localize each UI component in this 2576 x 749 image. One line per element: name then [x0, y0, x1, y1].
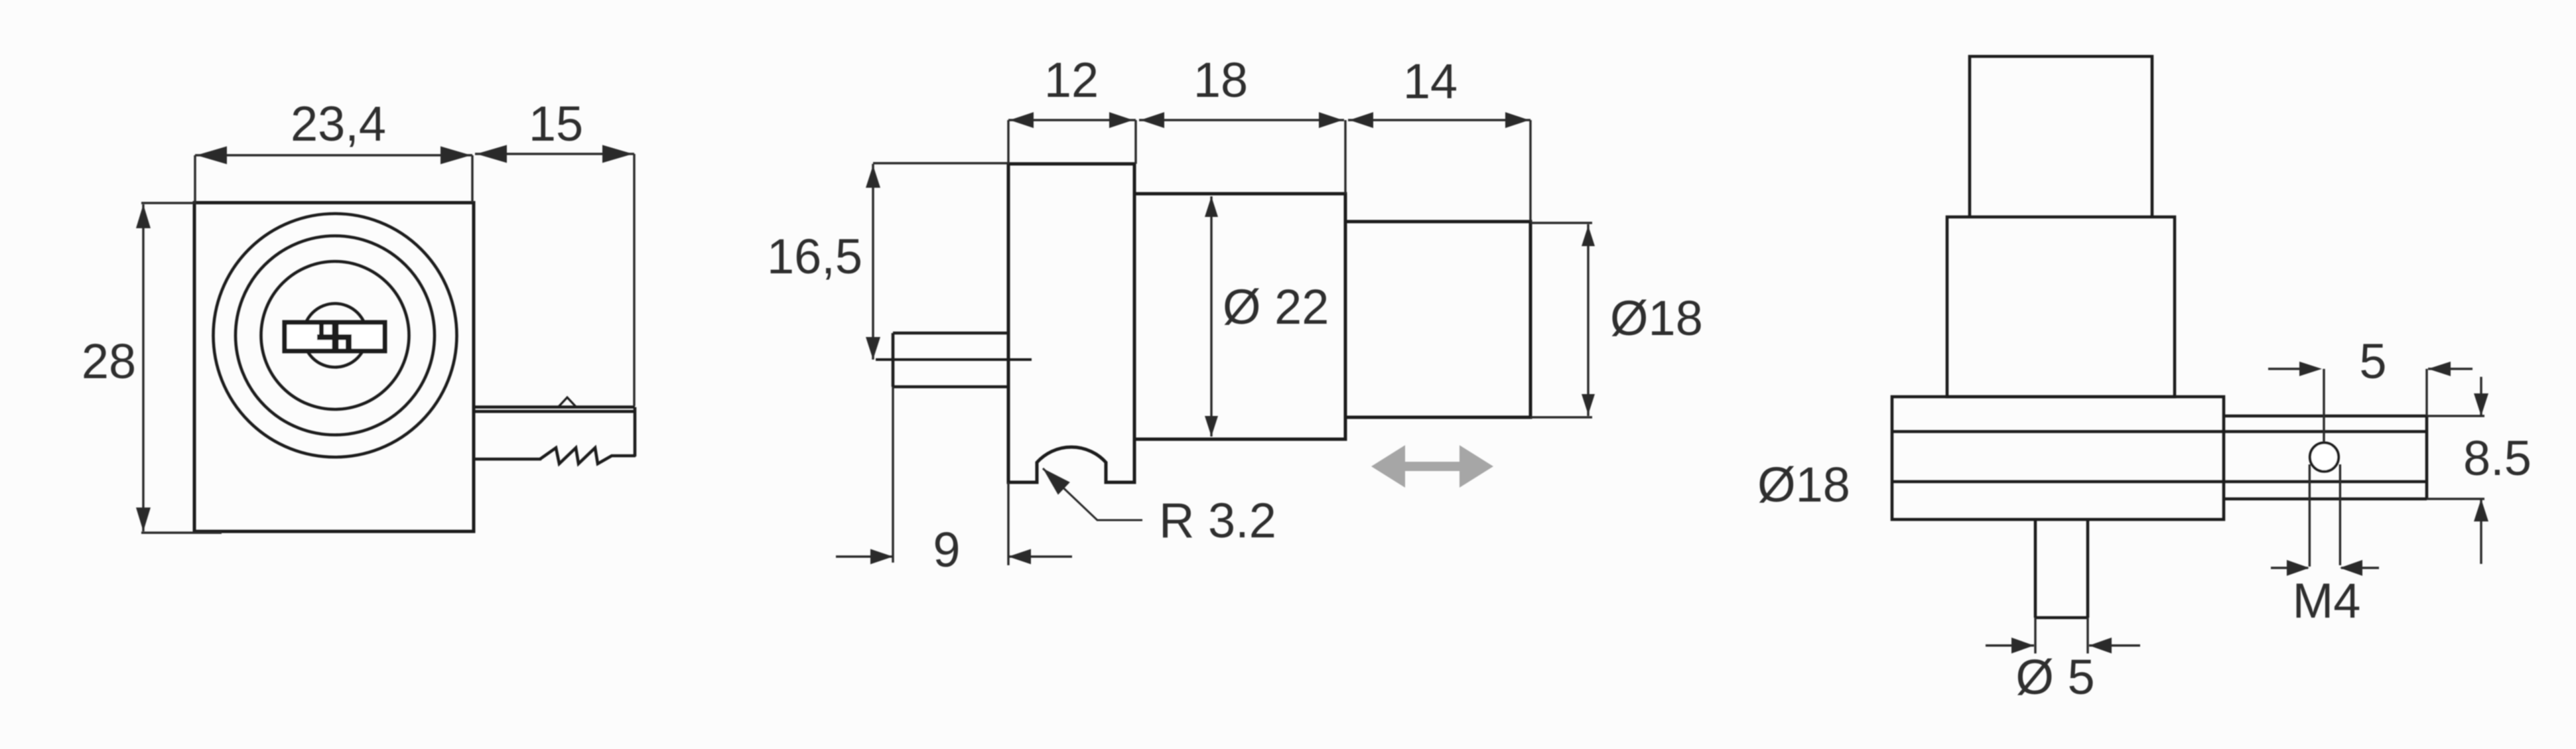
middle view: terminal tab middle line [876, 358, 1032, 361]
right view: cylinder housing block [1947, 217, 2175, 397]
dim 18 extension line [1344, 120, 1346, 194]
left view: middle bezel circle [236, 236, 435, 435]
middle view: terminal tab bottom edge [893, 385, 1008, 389]
left view: latch bolt right edge [634, 407, 637, 456]
dim diameter-18 top arrowhead [1582, 226, 1595, 246]
svg-text:23,4: 23,4 [291, 96, 386, 151]
middle view: terminal tab top edge [893, 332, 1008, 335]
dim 15 line [475, 153, 634, 155]
dim 16,5 bottom arrowhead [866, 337, 880, 360]
dim diameter-5 right extension [2086, 618, 2088, 653]
svg-text:9: 9 [933, 522, 960, 577]
dim diameter-18 top extension line [1530, 222, 1592, 224]
dim 14 left arrowhead [1349, 112, 1373, 128]
dim 12 left arrowhead [1010, 112, 1034, 128]
leader arrowhead R 3.2 [1043, 468, 1070, 495]
dim 28 bottom arrowhead [136, 508, 151, 531]
dim 23,4 line [195, 154, 472, 156]
dim 14 line [1348, 119, 1530, 121]
svg-text:Ø18: Ø18 [1757, 457, 1850, 512]
dim 5 right arrowhead [2428, 362, 2451, 376]
dim diameter-22 bottom arrowhead [1205, 416, 1218, 437]
dim 14 right arrowhead [1505, 112, 1529, 128]
dim 9 left extension line [892, 387, 894, 563]
dim 9 left arrowhead [870, 549, 893, 565]
dim 9 right arrowhead [1008, 549, 1031, 565]
right view: flange block [1892, 397, 2224, 519]
dim 5 bar end extension line [2425, 369, 2427, 416]
dim 8.5 bottom arrowhead [2474, 499, 2488, 521]
svg-text:Ø 5: Ø 5 [2015, 649, 2094, 705]
dim 12 right extension line [1134, 120, 1136, 164]
dim 8.5 top arrowhead [2474, 393, 2488, 416]
svg-text:Ø18: Ø18 [1610, 291, 1703, 346]
svg-text:8.5: 8.5 [2463, 431, 2532, 486]
dim diameter-5 left extension [2034, 618, 2036, 653]
dim 23,4 right extension line [471, 155, 473, 202]
dim 18 line [1139, 119, 1344, 121]
right view: flange inner line upper [1892, 430, 2427, 433]
dim diameter-18 bottom arrowhead [1582, 394, 1595, 415]
middle view: terminal tab left edge [892, 333, 895, 387]
dim 14 extension line [1529, 120, 1531, 222]
dim 16,5 top extension line [873, 162, 1008, 164]
dim diameter-22 line [1210, 196, 1212, 437]
dim M4 left arrow line [2271, 567, 2308, 569]
gray double-headed motion arrow [1371, 445, 1493, 488]
left view: cylinder plug circle [303, 304, 367, 368]
dim diameter-18 bottom extension line [1530, 416, 1592, 418]
dim diameter-5 left arrowhead [2011, 638, 2034, 653]
dim 15 left arrowhead [476, 145, 507, 163]
svg-text:12: 12 [1044, 52, 1099, 107]
right view: M4 screw hole circle [2310, 443, 2339, 471]
dim 18 left arrowhead [1140, 112, 1164, 128]
left view: inner bezel circle [261, 261, 409, 409]
dim M4 right arrowhead [2340, 560, 2362, 576]
dim 9 right arrow line [1008, 555, 1072, 557]
middle view: diameter-22 cylinder [1134, 194, 1345, 439]
dim 23,4 right arrowhead [441, 147, 471, 165]
dim 9 left arrow line [836, 555, 893, 557]
dim 28 top extension line [141, 202, 196, 204]
right view: flange inner line lower [1892, 480, 2427, 484]
dim 23,4 left arrowhead [196, 147, 227, 165]
left view: outer bezel circle [214, 214, 457, 457]
right view: latch bar top edge [2224, 415, 2427, 418]
svg-text:28: 28 [82, 334, 136, 389]
left view: surface finish marker on latch [558, 397, 576, 407]
dim 12 line [1008, 119, 1136, 121]
right view: M4 hole right edge line [2339, 464, 2341, 565]
right view: key head block [1970, 56, 2152, 217]
right view: M4 hole left edge line [2309, 464, 2311, 567]
leader line R 3.2 [1043, 468, 1142, 520]
right view: stem bottom edge [2035, 616, 2088, 620]
dim M4 right arrow line [2341, 567, 2379, 569]
dim 5 hole center extension line [2323, 369, 2325, 443]
dim 15 extension line [633, 154, 635, 406]
dim 8.5 bottom extension line [2427, 498, 2484, 500]
right view: latch bar right edge [2425, 416, 2429, 499]
dim 16,5 line [872, 164, 874, 360]
left view: latch bolt bottom edge left part [474, 458, 541, 461]
dim M4 left arrowhead [2287, 560, 2309, 576]
right view: stem right edge [2086, 519, 2090, 618]
dim diameter-5 left arrow line [1986, 644, 2034, 646]
dim 8.5 top extension line [2427, 415, 2484, 417]
svg-text:5: 5 [2359, 334, 2386, 389]
left view: latch bolt top edge [474, 405, 635, 409]
dim diameter-5 right arrowhead [2089, 638, 2112, 653]
svg-text:R 3.2: R 3.2 [1159, 493, 1276, 548]
svg-text:18: 18 [1193, 52, 1248, 107]
dim 18 right arrowhead [1319, 112, 1343, 128]
left view: keyhole slot outline [285, 322, 385, 351]
dim 12 right arrowhead [1109, 112, 1133, 128]
dim 16,5 top arrowhead [866, 165, 880, 188]
dim diameter-5 right arrow line [2089, 644, 2140, 646]
svg-text:14: 14 [1403, 54, 1457, 109]
right view: latch bar bottom edge [2224, 498, 2427, 501]
svg-text:M4: M4 [2293, 573, 2361, 628]
svg-text:16,5: 16,5 [767, 229, 862, 284]
left view: lock body square outline [194, 203, 474, 532]
dim 28 top arrowhead [136, 204, 151, 228]
dim 9 right extension line [1007, 482, 1009, 565]
left view: keyhole ward pattern [317, 323, 352, 350]
dim 8.5 bottom arrow line [2480, 499, 2482, 564]
dim 15 right arrowhead [602, 145, 633, 163]
dim 5 left arrow line [2268, 368, 2317, 370]
dim 23,4 left extension line [194, 155, 196, 202]
svg-text:15: 15 [529, 96, 583, 151]
dim 5 left arrowhead [2299, 362, 2322, 376]
middle view: mounting flange outline with notch [1008, 164, 1134, 482]
dim 8.5 top arrow line [2480, 377, 2482, 416]
middle view: diameter-18 cylinder [1345, 222, 1530, 417]
svg-text:Ø 22: Ø 22 [1223, 279, 1329, 334]
dim diameter-22 top arrowhead [1205, 196, 1218, 217]
left view: latch bolt serration zigzag [540, 448, 636, 464]
dim 5 right arrow line [2428, 368, 2473, 370]
right view: stem left edge [2034, 519, 2037, 618]
dim 28 bottom extension line [141, 531, 222, 533]
left view: latch bolt second edge [474, 410, 635, 413]
dim 12 left extension line [1007, 120, 1009, 164]
dim diameter-18 line [1587, 224, 1589, 416]
dim 28 line [142, 204, 144, 531]
